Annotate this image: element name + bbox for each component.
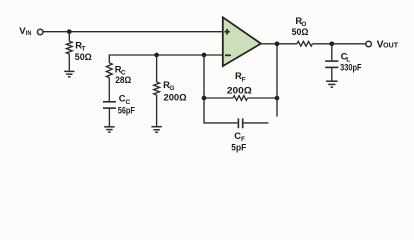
svg-text:200Ω: 200Ω [227,84,253,95]
ground (CC) [104,127,114,132]
resistor RC 28ohm [106,63,112,78]
ground (RT) [64,71,74,76]
junction dot: CL tap [329,41,334,46]
junction dot: output/feedback node [275,41,280,46]
svg-text:56pF: 56pF [118,104,135,115]
wire: CC to ground [108,108,110,126]
wire: CL to ground [331,67,333,80]
resistor RO 50ohm [297,41,312,46]
junction dot: feedback rail on minus bus [202,53,207,58]
junction dot at RG tap [154,53,159,58]
node VIN label [19,26,31,37]
wire: RO to VOUT terminal [312,43,365,45]
wire: minus input bus [109,55,223,63]
svg-text:F: F [242,76,246,83]
wire: op-amp output [261,43,297,45]
wire: feedback left rail [204,55,238,123]
resistor RF 200ohm [233,96,248,101]
wire: RT to ground [68,54,70,71]
svg-text:200Ω: 200Ω [164,91,188,102]
svg-text:5pF: 5pF [231,141,246,152]
op-amp plus input marking [224,29,229,35]
wire: junction down to RT [68,32,70,42]
wire: VIN to op-amp + input [43,31,223,33]
wire: CL tap down [331,44,333,61]
resistor RT 50ohm [66,41,72,54]
capacitor CF 5pF [238,118,242,128]
svg-text:OUT: OUT [383,43,399,50]
svg-text:28Ω: 28Ω [115,74,131,85]
terminal VOUT circle [366,41,372,47]
resistor RG 200ohm [154,82,160,95]
wire: CF right lead (fades into white patch) [243,122,269,124]
svg-text:IN: IN [26,30,32,37]
svg-text:330pF: 330pF [340,62,362,73]
svg-text:50Ω: 50Ω [292,26,309,37]
node VOUT label [377,39,399,50]
ground (CL) [326,81,338,87]
terminal VIN circle [37,29,43,35]
junction dot at RT tap [67,29,72,34]
op-amp minus input marking [225,54,231,56]
wire: RF branch right lead [248,97,278,99]
junction dot: RF right [275,96,280,101]
op-amp U1 [223,17,261,66]
junction dot: RF left [202,96,207,101]
ground (RG) [151,127,161,133]
svg-text:50Ω: 50Ω [75,51,92,62]
wire: RF branch left lead [204,97,233,99]
capacitor CL 330pF [325,61,338,67]
capacitor CC 56pF [103,102,116,108]
wire: RG tap down [156,55,158,82]
wire: RG to ground [156,95,158,126]
wire: RC to CC [108,78,110,101]
wire: feedback right rail (lower part hidden by white patch) [276,44,278,117]
